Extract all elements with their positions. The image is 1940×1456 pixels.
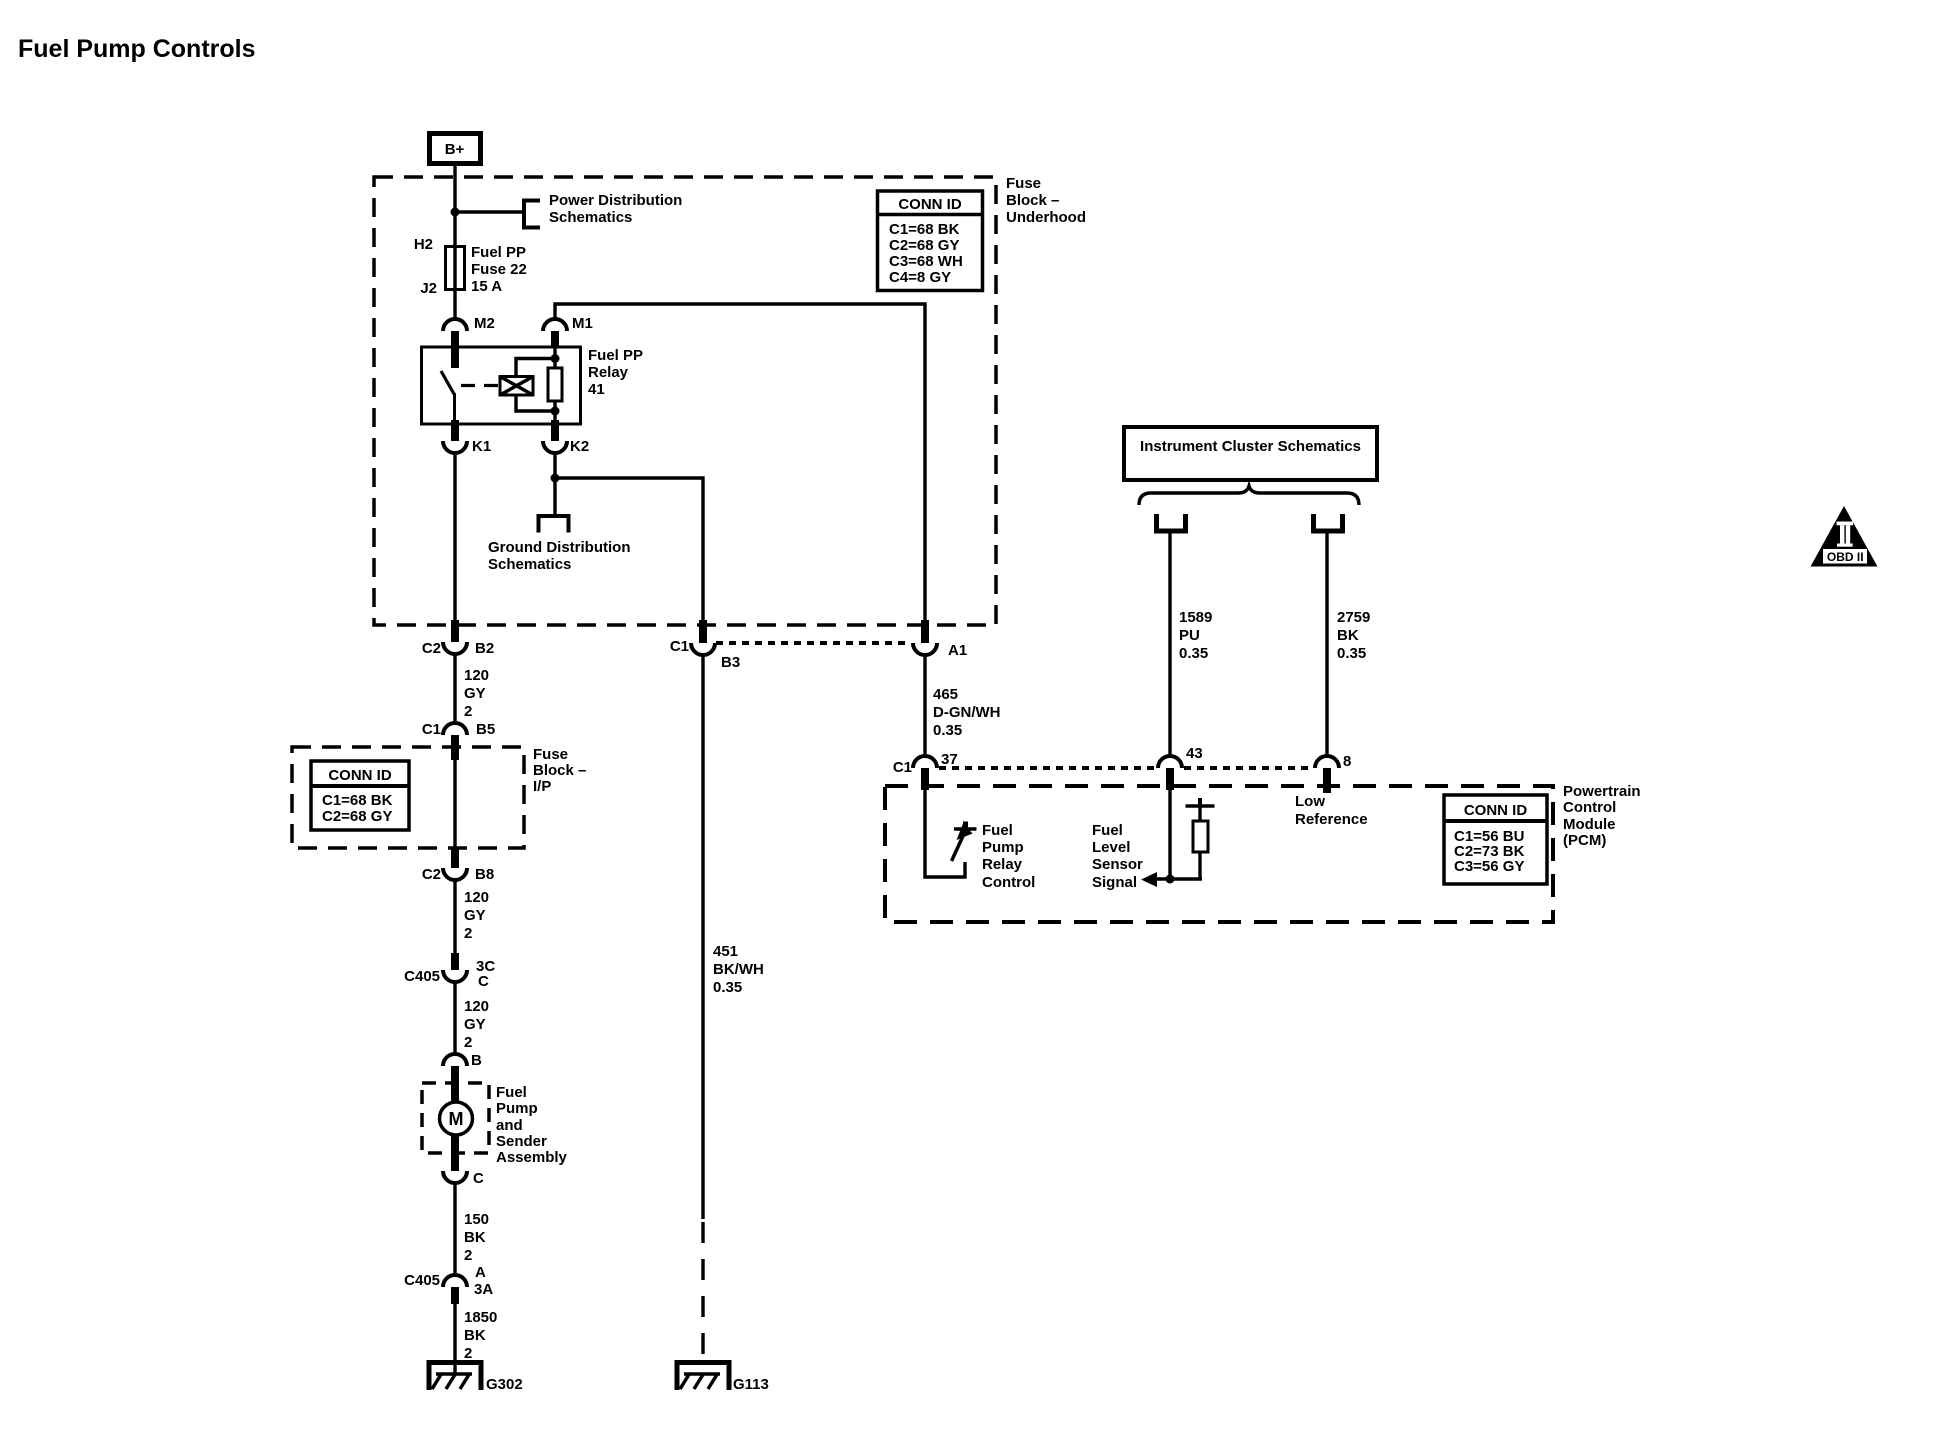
fuel pump relay control driver switch <box>952 822 977 862</box>
svg-text:H2: H2 <box>414 236 433 253</box>
svg-text:BK/WH: BK/WH <box>713 961 764 978</box>
svg-text:Fuse 22: Fuse 22 <box>471 261 527 278</box>
node coil bottom junction <box>551 407 560 416</box>
wire B8 to C405 <box>453 880 456 953</box>
svg-text:2: 2 <box>464 1247 472 1264</box>
svg-text:K2: K2 <box>570 438 589 455</box>
wire C405 to G302 <box>453 1304 456 1374</box>
svg-text:1850: 1850 <box>464 1309 497 1326</box>
connector C2/B8 <box>422 848 494 883</box>
svg-text:Control: Control <box>982 874 1035 891</box>
svg-text:C2: C2 <box>422 640 441 657</box>
svg-text:Power Distribution: Power Distribution <box>549 192 682 209</box>
wire A1 down to PCM pin 37 <box>923 655 926 756</box>
svg-text:Fuel PP: Fuel PP <box>588 347 643 364</box>
inline connector C405 A/3A <box>404 1264 493 1304</box>
svg-text:Underhood: Underhood <box>1006 209 1086 226</box>
svg-text:Schematics: Schematics <box>549 209 632 226</box>
wire B3 down to ground <box>701 655 704 1219</box>
connector table CONN ID PCM <box>1444 795 1547 884</box>
svg-text:GY: GY <box>464 907 486 924</box>
svg-text:C3=68 WH: C3=68 WH <box>889 253 963 270</box>
svg-text:8: 8 <box>1343 753 1351 770</box>
wire tap to power distribution bracket <box>455 210 524 213</box>
svg-text:Low: Low <box>1295 793 1325 810</box>
instrument cluster terminal right <box>1311 514 1345 532</box>
svg-text:0.35: 0.35 <box>1337 645 1366 662</box>
svg-text:Fuel: Fuel <box>982 822 1013 839</box>
wire B2 to B5 <box>453 654 456 723</box>
connector pin K1 <box>443 420 491 455</box>
svg-text:C2: C2 <box>422 866 441 883</box>
svg-text:Pump: Pump <box>496 1100 538 1117</box>
motor M fuel pump <box>440 1102 473 1135</box>
svg-text:CONN ID: CONN ID <box>328 767 392 784</box>
svg-text:120: 120 <box>464 998 489 1015</box>
connector pin B <box>443 1052 482 1102</box>
dotted connector line pins 43-8 <box>1184 766 1313 770</box>
svg-text:Powertrain: Powertrain <box>1563 783 1641 800</box>
wire inside I/P block <box>453 760 456 848</box>
node K2 junction <box>551 474 560 483</box>
svg-text:Block –: Block – <box>533 762 586 779</box>
wire label 1589 PU 0.35 <box>1179 609 1212 662</box>
svg-text:C2=68 GY: C2=68 GY <box>322 808 392 825</box>
svg-text:Relay: Relay <box>588 364 629 381</box>
wire label 2759 BK 0.35 <box>1337 609 1370 662</box>
instrument cluster schematics box <box>1124 427 1377 480</box>
svg-text:0.35: 0.35 <box>713 979 742 996</box>
svg-text:Fuel: Fuel <box>496 1084 527 1101</box>
inline connector C405 3C/C <box>404 953 495 990</box>
node coil top junction <box>551 354 560 363</box>
OBD II symbol <box>1811 506 1878 567</box>
svg-text:Fuse: Fuse <box>1006 175 1041 192</box>
label Ground Distribution Schematics <box>488 539 630 573</box>
svg-text:J2: J2 <box>420 280 437 297</box>
svg-text:CONN ID: CONN ID <box>1464 802 1528 819</box>
connector pin K2 <box>543 420 589 455</box>
svg-text:Schematics: Schematics <box>488 556 571 573</box>
pullup resistor fuel level <box>1186 798 1215 879</box>
svg-text:D-GN/WH: D-GN/WH <box>933 704 1001 721</box>
relay actuation dashed link <box>461 384 500 387</box>
dotted connector line pins 37-43 <box>939 766 1156 770</box>
svg-text:120: 120 <box>464 889 489 906</box>
svg-text:37: 37 <box>941 751 958 768</box>
svg-text:Fuel Pump Controls: Fuel Pump Controls <box>18 35 256 63</box>
fuel level sensor signal arrowhead <box>1141 872 1157 887</box>
label Fuel Pump and Sender Assembly <box>496 1084 568 1166</box>
svg-text:CONN ID: CONN ID <box>898 196 962 213</box>
wire pin 37 internal to driver <box>925 790 965 877</box>
svg-text:120: 120 <box>464 667 489 684</box>
wire to fuel level sensor signal arrow <box>1156 877 1202 880</box>
power terminal B+ <box>430 134 481 164</box>
svg-text:Relay: Relay <box>982 856 1023 873</box>
svg-text:2: 2 <box>464 703 472 720</box>
svg-text:Control: Control <box>1563 799 1616 816</box>
wire label 1850 BK 2 <box>464 1309 497 1362</box>
svg-text:GY: GY <box>464 1016 486 1033</box>
svg-text:Reference: Reference <box>1295 811 1368 828</box>
instrument cluster terminal left <box>1154 514 1188 532</box>
label J2 <box>420 280 437 297</box>
svg-text:Fuel PP: Fuel PP <box>471 244 526 261</box>
wire label 120 GY 2 <box>464 998 489 1051</box>
wire label 150 BK 2 <box>464 1211 489 1264</box>
svg-text:Level: Level <box>1092 839 1130 856</box>
wire pin 43 internal <box>1168 790 1171 879</box>
svg-text:451: 451 <box>713 943 738 960</box>
connector pin 8 <box>1315 753 1351 793</box>
label Fuel PP Fuse 22 15 A <box>471 244 527 295</box>
ground G302 <box>427 1360 523 1393</box>
label H2 <box>414 236 433 253</box>
svg-text:C2=68 GY: C2=68 GY <box>889 237 959 254</box>
connector pin 43 <box>1158 745 1203 790</box>
svg-text:A: A <box>475 1264 486 1281</box>
relay coil element <box>548 368 562 401</box>
node power distribution tap <box>451 208 460 217</box>
svg-text:C1: C1 <box>422 721 441 738</box>
wire junction to ground reference <box>553 478 556 516</box>
svg-text:Module: Module <box>1563 816 1616 833</box>
svg-text:B3: B3 <box>721 654 740 671</box>
wire dashed section to G113 <box>701 1222 704 1360</box>
svg-text:465: 465 <box>933 686 958 703</box>
svg-text:GY: GY <box>464 685 486 702</box>
svg-text:C1: C1 <box>670 638 689 655</box>
connector C2/B2 <box>422 620 494 657</box>
wire K2 down to junction <box>553 453 556 478</box>
label Fuel Level Sensor Signal <box>1092 822 1143 891</box>
svg-text:B: B <box>471 1052 482 1069</box>
svg-text:Assembly: Assembly <box>496 1149 568 1166</box>
connector pin M1 <box>543 315 593 347</box>
svg-text:B8: B8 <box>475 866 494 883</box>
label Low Reference <box>1295 793 1368 828</box>
wire label 120 GY 2 <box>464 889 489 942</box>
label Fuel PP Relay 41 <box>588 347 643 398</box>
svg-text:C405: C405 <box>404 968 440 985</box>
svg-text:BK: BK <box>464 1327 486 1344</box>
ground distribution reference bracket <box>539 516 569 533</box>
svg-text:(PCM): (PCM) <box>1563 832 1606 849</box>
svg-text:C: C <box>473 1170 484 1187</box>
svg-text:Sensor: Sensor <box>1092 856 1143 873</box>
svg-text:2759: 2759 <box>1337 609 1370 626</box>
inline connector dotted link B3 to A1 <box>716 641 911 645</box>
connector C1/37 <box>893 751 958 790</box>
wire C405 to B <box>453 982 456 1054</box>
svg-text:M: M <box>449 1109 464 1129</box>
wire label 120 GY 2 <box>464 667 489 720</box>
wire label 451 BK/WH 0.35 <box>713 943 764 996</box>
label Powertrain Control Module (PCM) <box>1563 783 1641 849</box>
svg-text:Signal: Signal <box>1092 874 1137 891</box>
svg-text:2: 2 <box>464 1034 472 1051</box>
node pin 43 junction <box>1166 875 1175 884</box>
svg-text:Ground Distribution: Ground Distribution <box>488 539 630 556</box>
connector table CONN ID underhood <box>878 191 983 291</box>
relay coil parallel branch wires <box>516 347 555 420</box>
svg-text:OBD II: OBD II <box>1827 550 1864 564</box>
svg-text:PU: PU <box>1179 627 1200 644</box>
svg-text:150: 150 <box>464 1211 489 1228</box>
svg-text:C1=68 BK: C1=68 BK <box>322 792 393 809</box>
connector pin M2 <box>443 315 495 368</box>
connector C1/B5 <box>422 721 495 760</box>
wire label 465 D-GN/WH 0.35 <box>933 686 1001 739</box>
svg-text:B5: B5 <box>476 721 495 738</box>
powertrain control module PCM (dashed box) <box>885 786 1553 922</box>
svg-text:Pump: Pump <box>982 839 1024 856</box>
title Fuel Pump Controls <box>18 35 256 63</box>
fuel pump and sender assembly (dashed box) <box>422 1083 489 1153</box>
svg-text:C405: C405 <box>404 1272 440 1289</box>
relay Fuel PP Relay 41 (box) <box>422 347 581 424</box>
wire 2759 BK cluster to pin 8 <box>1325 533 1328 756</box>
svg-text:3A: 3A <box>474 1281 493 1298</box>
svg-text:0.35: 0.35 <box>1179 645 1208 662</box>
svg-text:0.35: 0.35 <box>933 722 962 739</box>
svg-text:2: 2 <box>464 925 472 942</box>
connector pin C <box>443 1135 484 1187</box>
fuse block I/P (dashed box) <box>292 747 524 848</box>
connector table CONN ID I/P <box>311 761 409 830</box>
svg-text:BK: BK <box>464 1229 486 1246</box>
svg-text:G113: G113 <box>733 1376 769 1393</box>
svg-text:C1=68 BK: C1=68 BK <box>889 221 960 238</box>
fuse block underhood (dashed box) <box>374 177 996 625</box>
svg-text:Fuel: Fuel <box>1092 822 1123 839</box>
svg-text:41: 41 <box>588 381 605 398</box>
svg-text:K1: K1 <box>472 438 491 455</box>
label Fuel Pump Relay Control <box>982 822 1035 891</box>
label Fuse Block - I/P <box>533 746 586 795</box>
svg-text:C3=56 GY: C3=56 GY <box>1454 858 1524 875</box>
brace under instrument cluster box <box>1139 486 1359 505</box>
relay switch arm <box>441 371 455 420</box>
connector C1/B3 <box>670 620 740 671</box>
svg-text:and: and <box>496 1117 523 1134</box>
label Power Distribution Schematics <box>549 192 682 226</box>
svg-text:M1: M1 <box>572 315 593 332</box>
wire B+ down through fuse to M2 <box>453 166 456 319</box>
svg-text:C4=8 GY: C4=8 GY <box>889 269 951 286</box>
svg-text:C1: C1 <box>893 759 912 776</box>
svg-text:C: C <box>478 973 489 990</box>
label Fuse Block - Underhood <box>1006 175 1086 226</box>
svg-text:Instrument Cluster Schematics: Instrument Cluster Schematics <box>1140 438 1361 455</box>
svg-text:43: 43 <box>1186 745 1203 762</box>
svg-text:Sender: Sender <box>496 1133 547 1150</box>
wire 1589 PU cluster to pin 43 <box>1168 533 1171 756</box>
fuse F22 Fuel PP 15A <box>446 247 465 290</box>
power distribution reference bracket <box>524 201 540 228</box>
wire M1 up and over to A1 <box>555 304 925 620</box>
svg-text:Block –: Block – <box>1006 192 1059 209</box>
wire K1 down to B2 <box>453 453 456 620</box>
connector A1 <box>913 620 967 659</box>
svg-text:G302: G302 <box>486 1376 523 1393</box>
svg-text:B2: B2 <box>475 640 494 657</box>
svg-text:A1: A1 <box>948 642 967 659</box>
svg-text:M2: M2 <box>474 315 495 332</box>
svg-text:BK: BK <box>1337 627 1359 644</box>
relay coil crossed box <box>500 377 533 396</box>
wire junction to B3 drop <box>555 478 703 620</box>
svg-text:2: 2 <box>464 1345 472 1362</box>
svg-text:B+: B+ <box>445 141 465 158</box>
svg-text:15 A: 15 A <box>471 278 502 295</box>
ground G113 <box>675 1360 769 1393</box>
wire C to C405 <box>453 1183 456 1275</box>
svg-text:1589: 1589 <box>1179 609 1212 626</box>
svg-text:Fuse: Fuse <box>533 746 568 763</box>
svg-text:I/P: I/P <box>533 778 551 795</box>
